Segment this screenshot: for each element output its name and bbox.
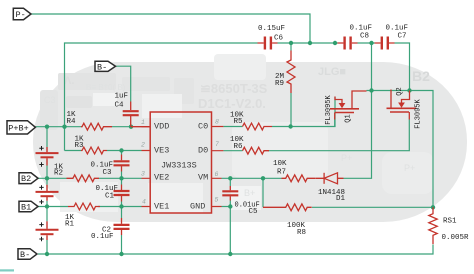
junction GND drop on rail xyxy=(228,252,232,256)
capacitor C6 0.15uF xyxy=(258,37,278,50)
svg-text:VM: VM xyxy=(198,172,208,182)
svg-text:B2: B2 xyxy=(412,68,430,84)
junction VM riser on rail xyxy=(369,41,373,45)
svg-text:RS1: RS1 xyxy=(443,218,457,226)
junction battery top at P+B+ xyxy=(45,125,49,129)
transistor Q1 FL3095K xyxy=(330,91,367,120)
transistor Q2 FL3095K xyxy=(387,90,417,120)
svg-text:1uF: 1uF xyxy=(115,93,129,101)
junction C1/C2 on VE1 row xyxy=(119,204,123,208)
svg-text:R6: R6 xyxy=(234,143,244,151)
svg-text:5: 5 xyxy=(215,197,219,204)
junction GND pin drop xyxy=(228,204,232,208)
wire MOSFET drain node xyxy=(344,43,434,207)
svg-text:P+: P+ xyxy=(341,153,352,163)
netflag P+B+ xyxy=(7,121,35,134)
svg-text:C7: C7 xyxy=(398,33,407,41)
svg-text:8: 8 xyxy=(215,119,219,126)
svg-text:0.1uF: 0.1uF xyxy=(91,233,114,241)
svg-text:B1: B1 xyxy=(21,202,31,212)
junction B- flag on rail xyxy=(45,252,49,256)
netflag B1 xyxy=(19,201,38,212)
wire VDD row xyxy=(35,126,131,128)
resistor R3 xyxy=(81,147,107,154)
battery BT2 (middle cell) xyxy=(36,185,59,201)
svg-text:D0: D0 xyxy=(198,145,208,155)
svg-text:FL3095K: FL3095K xyxy=(415,98,423,128)
capacitor C5 0.01uF xyxy=(222,186,238,201)
svg-text:≌8650T-3S: ≌8650T-3S xyxy=(200,81,268,96)
diode D1 1N4148 xyxy=(316,173,344,184)
battery BT1 (top cell) xyxy=(36,147,59,166)
wire left caps column xyxy=(121,151,123,255)
svg-text:P+: P+ xyxy=(404,163,415,173)
svg-text:C8: C8 xyxy=(360,33,369,41)
svg-text:C6: C6 xyxy=(274,35,284,43)
svg-text:R5: R5 xyxy=(234,118,244,126)
svg-text:D1C1-V2.0.: D1C1-V2.0. xyxy=(198,96,266,111)
svg-text:C4: C4 xyxy=(115,102,125,110)
svg-text:JLG■: JLG■ xyxy=(318,66,346,78)
junction C3/C1 on VE2 row xyxy=(119,176,123,180)
wire R8 branch xyxy=(263,178,433,207)
junction Q1 source drop on rail xyxy=(333,41,337,45)
svg-text:VE3: VE3 xyxy=(154,145,169,155)
wire VM row xyxy=(222,177,282,179)
junction R8 branch on VM row xyxy=(261,176,265,180)
resistor R2 xyxy=(67,175,99,182)
svg-text:΢Λ.: ΢Λ. xyxy=(64,75,74,87)
IC pin stubs xyxy=(142,127,224,207)
svg-text:10K: 10K xyxy=(273,160,287,168)
netflag B- top xyxy=(95,61,116,72)
svg-text:C3: C3 xyxy=(44,95,56,105)
svg-text:B≡ B†0( B): B≡ B†0( B) xyxy=(86,83,126,92)
junction RS1 top node xyxy=(431,205,435,209)
svg-text:B-: B- xyxy=(20,250,30,260)
svg-text:1: 1 xyxy=(141,119,145,126)
wire Q1 gate to R5 row xyxy=(334,120,336,127)
wire B- bottom rail xyxy=(38,245,433,255)
junction R9 top on P+ rail xyxy=(289,41,293,45)
junction C2 bottom on rail xyxy=(119,252,123,256)
svg-text:R2: R2 xyxy=(54,170,63,178)
svg-text:0.005R: 0.005R xyxy=(442,234,470,242)
svg-text:B2: B2 xyxy=(21,174,31,184)
junction C3 top on VE3 row xyxy=(119,148,123,152)
junction P- drop on rail xyxy=(308,41,312,45)
wire D0 R6 row to Q2 gate xyxy=(223,120,409,151)
netflag B2 xyxy=(19,173,38,184)
resistor R8 100K xyxy=(263,204,312,211)
resistor R6 xyxy=(243,147,270,154)
svg-text:Q2: Q2 xyxy=(396,87,404,95)
svg-text:R3: R3 xyxy=(75,142,85,150)
capacitor C7 0.1uF xyxy=(375,37,395,50)
pin numbers xyxy=(141,119,219,206)
battery BT3 (bottom cell) xyxy=(36,221,59,240)
junction Q1 drain node xyxy=(369,88,373,92)
wire VE3 row xyxy=(65,150,142,152)
junction R9 bottom on C0 row xyxy=(288,124,292,128)
junction B2 battery tap xyxy=(45,176,49,180)
svg-text:Q1: Q1 xyxy=(345,114,353,122)
svg-text:R7: R7 xyxy=(277,169,286,177)
svg-text:7: 7 xyxy=(215,141,219,148)
svg-text:0.15uF: 0.15uF xyxy=(258,25,285,33)
svg-text:R4: R4 xyxy=(67,118,77,126)
svg-text:B-: B- xyxy=(97,62,107,72)
wire VE1 / B1 row xyxy=(38,206,142,208)
wire B- to C4 xyxy=(116,66,131,101)
PCB photo watermark xyxy=(33,54,467,222)
svg-text:3: 3 xyxy=(141,171,145,178)
svg-text:C5: C5 xyxy=(249,208,259,216)
resistor RS1 0.005R vertical xyxy=(429,207,437,244)
capacitor C4 1uF xyxy=(123,102,139,127)
svg-text:VE2: VE2 xyxy=(154,172,169,182)
svg-text:R9: R9 xyxy=(275,80,284,88)
svg-text:D1: D1 xyxy=(336,195,346,203)
svg-text:C3: C3 xyxy=(103,169,113,177)
netflag B- bottom xyxy=(18,249,37,260)
wire GND stub xyxy=(222,206,231,208)
svg-text:GND: GND xyxy=(190,201,205,211)
svg-text:B+: B+ xyxy=(244,188,255,198)
resistor R9 2M vertical xyxy=(287,51,295,94)
svg-text:VE1: VE1 xyxy=(154,201,169,211)
capacitor C8 0.1uF xyxy=(338,37,358,50)
wire P+ top rail xyxy=(65,43,410,151)
svg-text:6: 6 xyxy=(215,171,219,178)
svg-text:C1: C1 xyxy=(105,193,115,201)
resistor R4 xyxy=(81,123,150,130)
wire battery stack column xyxy=(46,127,48,254)
svg-text:R1: R1 xyxy=(65,221,75,229)
wire C0 R5 row xyxy=(223,97,335,127)
wire P- net top xyxy=(31,14,310,43)
capacitor C3 0.1uF xyxy=(114,155,130,172)
capacitor C2 0.1uF xyxy=(114,218,130,235)
wire VE2 / B2 row xyxy=(38,177,142,179)
wire C5 column xyxy=(229,178,231,254)
resistor R1 xyxy=(68,203,100,210)
op-amp U1 IC JW3313S box xyxy=(150,112,211,213)
junction C5 top on VM row xyxy=(228,176,232,180)
svg-text:JW3313S: JW3313S xyxy=(161,161,197,171)
svg-text:FL3095K: FL3095K xyxy=(325,94,333,124)
svg-text:P+B+: P+B+ xyxy=(8,123,28,133)
resistor R5 xyxy=(243,123,273,130)
svg-text:0.1uF: 0.1uF xyxy=(350,25,373,33)
svg-text:P-: P- xyxy=(16,10,26,20)
svg-text:R8: R8 xyxy=(297,229,306,237)
resistor R7 xyxy=(282,175,316,182)
netflag P- xyxy=(13,8,31,20)
svg-text:2: 2 xyxy=(141,142,145,149)
wire R9 column xyxy=(290,43,292,127)
svg-text:4: 4 xyxy=(142,199,146,206)
svg-text:C0: C0 xyxy=(198,121,208,131)
junction R3 branch on VDD row xyxy=(62,125,66,129)
teal artifact bottom-left xyxy=(0,269,14,271)
capacitor C1 0.1uF xyxy=(114,185,130,202)
svg-text:VDD: VDD xyxy=(154,121,169,131)
junction C4 bottom on VDD row xyxy=(129,125,133,129)
junction Q2 drain node xyxy=(407,88,411,92)
junction B1 battery tap xyxy=(45,204,49,208)
svg-text:0.1uF: 0.1uF xyxy=(386,25,409,33)
